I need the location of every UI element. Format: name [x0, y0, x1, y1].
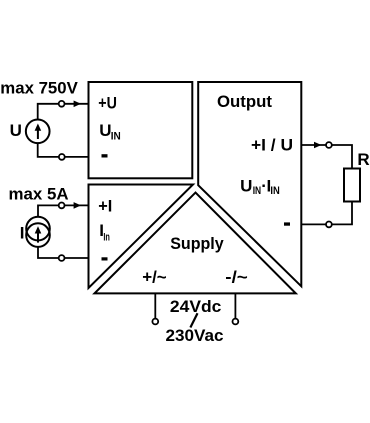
svg-text:+U: +U	[98, 93, 117, 112]
supply block (triangle)	[95, 193, 296, 294]
svg-text:R: R	[357, 150, 369, 169]
wire terminal to R top	[332, 145, 352, 169]
minus label (I block)	[102, 257, 108, 260]
wire output minus	[301, 223, 326, 225]
supply wire right	[234, 293, 236, 318]
svg-text:max 5A: max 5A	[9, 184, 69, 203]
output block	[198, 82, 301, 286]
wire R bottom	[332, 202, 352, 225]
terminal I minus	[59, 255, 65, 261]
svg-text:I: I	[20, 223, 25, 242]
wire I bottom to block	[65, 257, 89, 259]
minus label (output block)	[284, 222, 290, 225]
terminal output minus	[326, 222, 332, 228]
wire I top left	[38, 205, 59, 217]
wire U bottom to block	[65, 156, 89, 158]
svg-text:+/~: +/~	[142, 267, 167, 286]
arrow into +U	[74, 101, 81, 108]
arrow to R	[314, 142, 321, 149]
terminal output plus	[326, 142, 332, 148]
arrow into +I	[74, 202, 81, 209]
label IIn	[99, 221, 110, 243]
svg-text:+I / U: +I / U	[251, 136, 293, 155]
svg-text:IN: IN	[270, 185, 279, 197]
terminal U plus	[59, 101, 65, 107]
voltage source U	[26, 119, 50, 143]
terminal I plus	[59, 203, 65, 209]
terminal U minus	[59, 154, 65, 160]
wire I top to block	[65, 204, 89, 206]
svg-text:24Vdc: 24Vdc	[170, 297, 222, 316]
svg-text:+I: +I	[98, 196, 112, 215]
svg-text:max 750V: max 750V	[0, 79, 78, 98]
svg-text:U: U	[240, 177, 252, 196]
svg-text:-/~: -/~	[225, 267, 248, 286]
slash between 24Vdc and 230Vac	[190, 313, 197, 327]
input block I (triangle)	[89, 185, 194, 289]
supply wire left	[154, 293, 156, 318]
wire U bottom left	[38, 143, 59, 157]
terminal supply right	[233, 319, 239, 325]
svg-text:IN: IN	[111, 131, 121, 143]
input block U	[89, 82, 193, 178]
svg-text:Supply: Supply	[170, 234, 224, 253]
svg-text:In: In	[103, 231, 110, 243]
terminal supply left	[152, 319, 158, 325]
label UIN	[99, 121, 121, 142]
wire U top to block	[65, 103, 89, 105]
svg-text:230Vac: 230Vac	[166, 326, 224, 345]
resistor R	[344, 169, 360, 202]
minus label (U block)	[102, 154, 108, 157]
svg-text:U: U	[99, 121, 111, 140]
current source I	[26, 217, 50, 247]
wire U top left	[38, 104, 59, 120]
wire output plus	[301, 144, 326, 146]
svg-text:U: U	[10, 121, 22, 140]
label UIN·IIN	[240, 177, 280, 198]
wire I bottom left	[38, 247, 59, 258]
svg-text:IN: IN	[253, 185, 261, 197]
svg-text:Output: Output	[217, 92, 272, 111]
